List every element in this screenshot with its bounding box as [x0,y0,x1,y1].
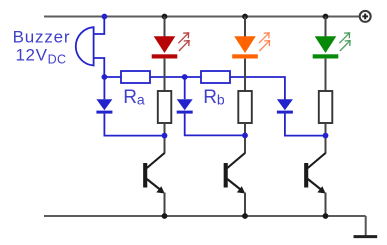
buzzer B1 [76,27,94,65]
wire D1 to node C1 [104,114,164,136]
node B (Ra / Rb / D2) [182,74,188,80]
LED D6 green [313,36,339,58]
bottom rail [44,215,366,217]
node bottom rail 1 [162,213,168,219]
wire R2 to node C2 [244,123,246,154]
wire to ground [365,216,367,236]
terminal + (supply terminal) [360,11,371,22]
LED D5 orange [232,36,258,58]
node bottom rail 3 [323,213,329,219]
wire buzzer bottom pin [94,58,105,77]
resistor Rb [201,71,230,83]
wire rail to LED1 [164,17,166,38]
wire R3 to node C3 [325,123,327,154]
LED D4 red [152,36,178,58]
LED1 light arrows [178,33,189,51]
wire D2 to node C2 [185,114,245,136]
wire LED1 to R1 [164,59,166,91]
svg-text:Buzzer: Buzzer [13,28,71,47]
wire rail to LED2 [244,17,246,38]
node rail junction 2 [242,14,248,20]
node rail junction 3 [323,14,329,20]
top supply rail [44,16,360,18]
resistor Ra [121,71,150,83]
wire D3 to node C3 [285,114,326,136]
node buzzer-rail junction [102,14,108,20]
node C2 [242,133,248,139]
wire Rb to D3 [230,77,285,99]
node bottom rail 2 [242,213,248,219]
wire node A to Ra [104,76,121,78]
node A (buzzer / Ra / D1) [102,74,108,80]
wire rail to LED3 [325,17,327,38]
resistor R3 [319,91,333,123]
wire R1 to node C1 [164,123,166,154]
ground [354,235,378,238]
node C1 [162,133,168,139]
transistor Q2 [226,153,245,192]
wire Q3 emitter to bottom rail [325,193,327,217]
diode D1 [96,77,112,114]
wire Q1 emitter to bottom rail [164,193,166,217]
resistor R1 [158,91,172,123]
transistor Q3 [306,153,325,192]
wire Q2 emitter to bottom rail [244,193,246,217]
wire LED2 to R2 [244,59,246,91]
LED2 light arrows [259,33,270,51]
diode D2 [177,77,193,114]
node rail junction 1 [162,14,168,20]
node C3 [323,133,329,139]
wire Ra to node B [150,76,201,78]
diode D3 [277,99,293,114]
LED3 light arrows [339,33,350,51]
wire LED3 to R3 [325,59,327,91]
wire buzzer top pin [94,17,105,35]
resistor R2 [238,91,252,123]
transistor Q1 [145,153,164,192]
